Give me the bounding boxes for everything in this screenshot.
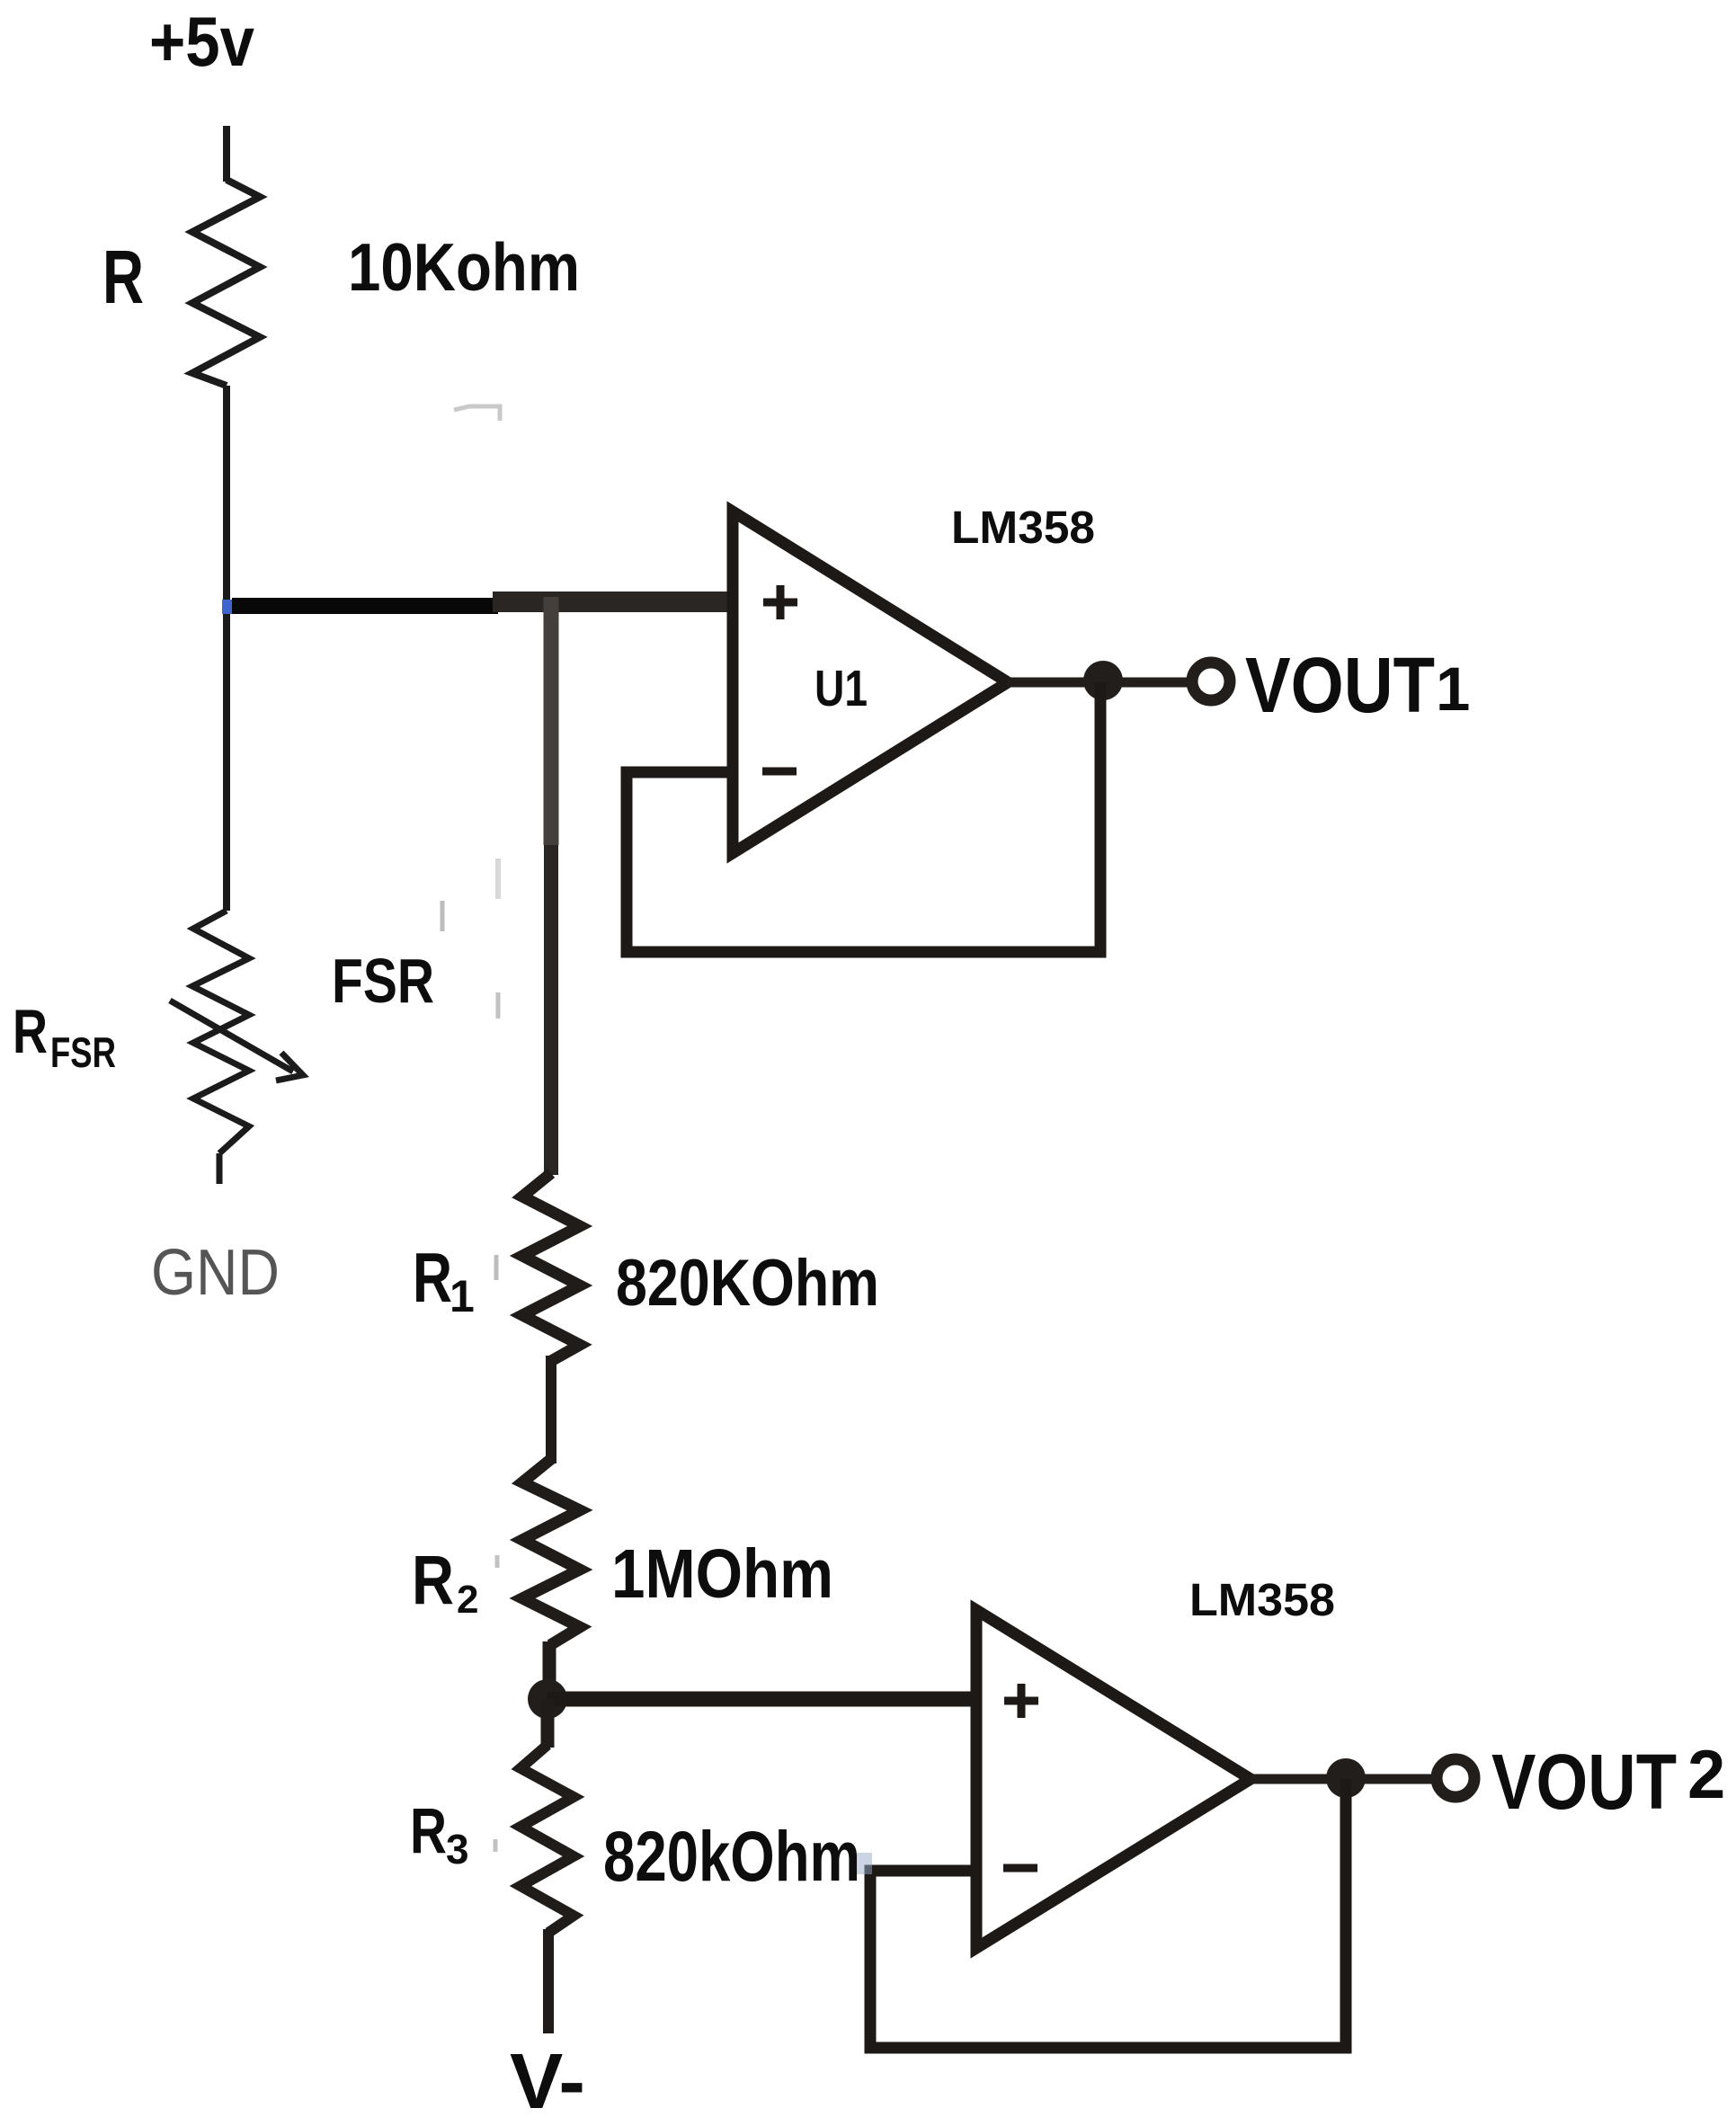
svg-text:VOUT: VOUT (1245, 642, 1435, 729)
svg-text:2: 2 (457, 1578, 478, 1622)
FSR wiper arrow (170, 1001, 293, 1072)
resistor R2 (522, 1459, 580, 1645)
faint artifact tick left of R3 (494, 1839, 498, 1852)
svg-text:R: R (13, 997, 48, 1066)
svg-text:LM358: LM358 (951, 502, 1095, 553)
wire U1 feedback loop (output to inverting input) (627, 682, 1100, 952)
svg-text:U1: U1 (815, 660, 868, 717)
op-amp U1 minus input marking (762, 768, 797, 776)
faint artifact tick left of R1 (494, 1255, 499, 1280)
svg-text:+5v: +5v (149, 2, 255, 81)
faint artifact tick left of branch (441, 901, 445, 931)
wire U2 feedback loop (output to inverting input) (870, 1779, 1346, 2048)
svg-text:V-: V- (510, 2038, 585, 2125)
node A blue junction mark (222, 600, 238, 614)
wire R2 to junction node B (543, 1641, 556, 1699)
op-amp U2 plus input marking (1004, 1697, 1038, 1705)
node B junction dot (528, 1679, 567, 1719)
svg-text:R: R (412, 1542, 454, 1619)
terminal circle VOUT2 (1437, 1759, 1474, 1797)
svg-text:GND: GND (151, 1237, 280, 1309)
wire node B to op-amp 2 + input (548, 1692, 982, 1707)
svg-text:820KOhm: 820KOhm (616, 1247, 879, 1320)
wire from +5v to resistor R (223, 126, 230, 182)
wire U1 output (1008, 678, 1196, 688)
resistor FSR (RFSR) (192, 911, 249, 1153)
svg-text:R: R (102, 235, 144, 319)
wire node to branch (thick) (232, 598, 498, 614)
wire branch down to R1 (544, 597, 559, 845)
resistor R1 (522, 1173, 580, 1361)
svg-text:3: 3 (446, 1826, 469, 1872)
svg-text:R: R (413, 1238, 452, 1317)
svg-text:VOUT: VOUT (1491, 1739, 1677, 1826)
svg-text:R: R (410, 1796, 447, 1867)
svg-text:FSR: FSR (50, 1028, 116, 1076)
faint artifact tick below branch (496, 992, 501, 1019)
svg-text:1: 1 (450, 1271, 475, 1321)
svg-text:1MOhm: 1MOhm (611, 1535, 833, 1613)
wire FSR bottom tail (217, 1153, 223, 1184)
resistor R3 (521, 1745, 574, 1933)
op-amp U1 triangle (733, 511, 1008, 853)
svg-text:2: 2 (1687, 1737, 1725, 1813)
faint artifact tick left of R2 (495, 1555, 500, 1568)
svg-text:820kOhm: 820kOhm (603, 1816, 860, 1896)
wire U2 output (1251, 1775, 1438, 1784)
op-amp U1 plus input marking (763, 599, 797, 607)
wire node B down to R3 (541, 1699, 555, 1748)
wire branch to op-amp + input (493, 592, 739, 612)
wire R3 to V- (543, 1929, 554, 2033)
wire continued to R1 (544, 845, 558, 1175)
op-amp U2 minus input marking (1003, 1864, 1037, 1872)
wire R1 to R2 (546, 1356, 556, 1463)
resistor R (192, 180, 260, 386)
junction dot at U2 output (1326, 1758, 1366, 1798)
svg-text:10Kohm: 10Kohm (348, 229, 580, 305)
junction dot at U1 output (1083, 661, 1123, 700)
node blue smudge near U2 feedback corner (857, 1853, 872, 1874)
svg-text:FSR: FSR (332, 946, 434, 1016)
svg-text:1: 1 (1436, 654, 1470, 724)
svg-text:LM358: LM358 (1189, 1574, 1335, 1625)
wire from R down through node to FSR (223, 386, 230, 911)
faint artifact mark near branch top (454, 406, 500, 421)
terminal circle VOUT1 (1192, 663, 1230, 700)
op-amp U2 triangle (976, 1610, 1251, 1948)
faint artifact smear on branch (495, 858, 501, 899)
